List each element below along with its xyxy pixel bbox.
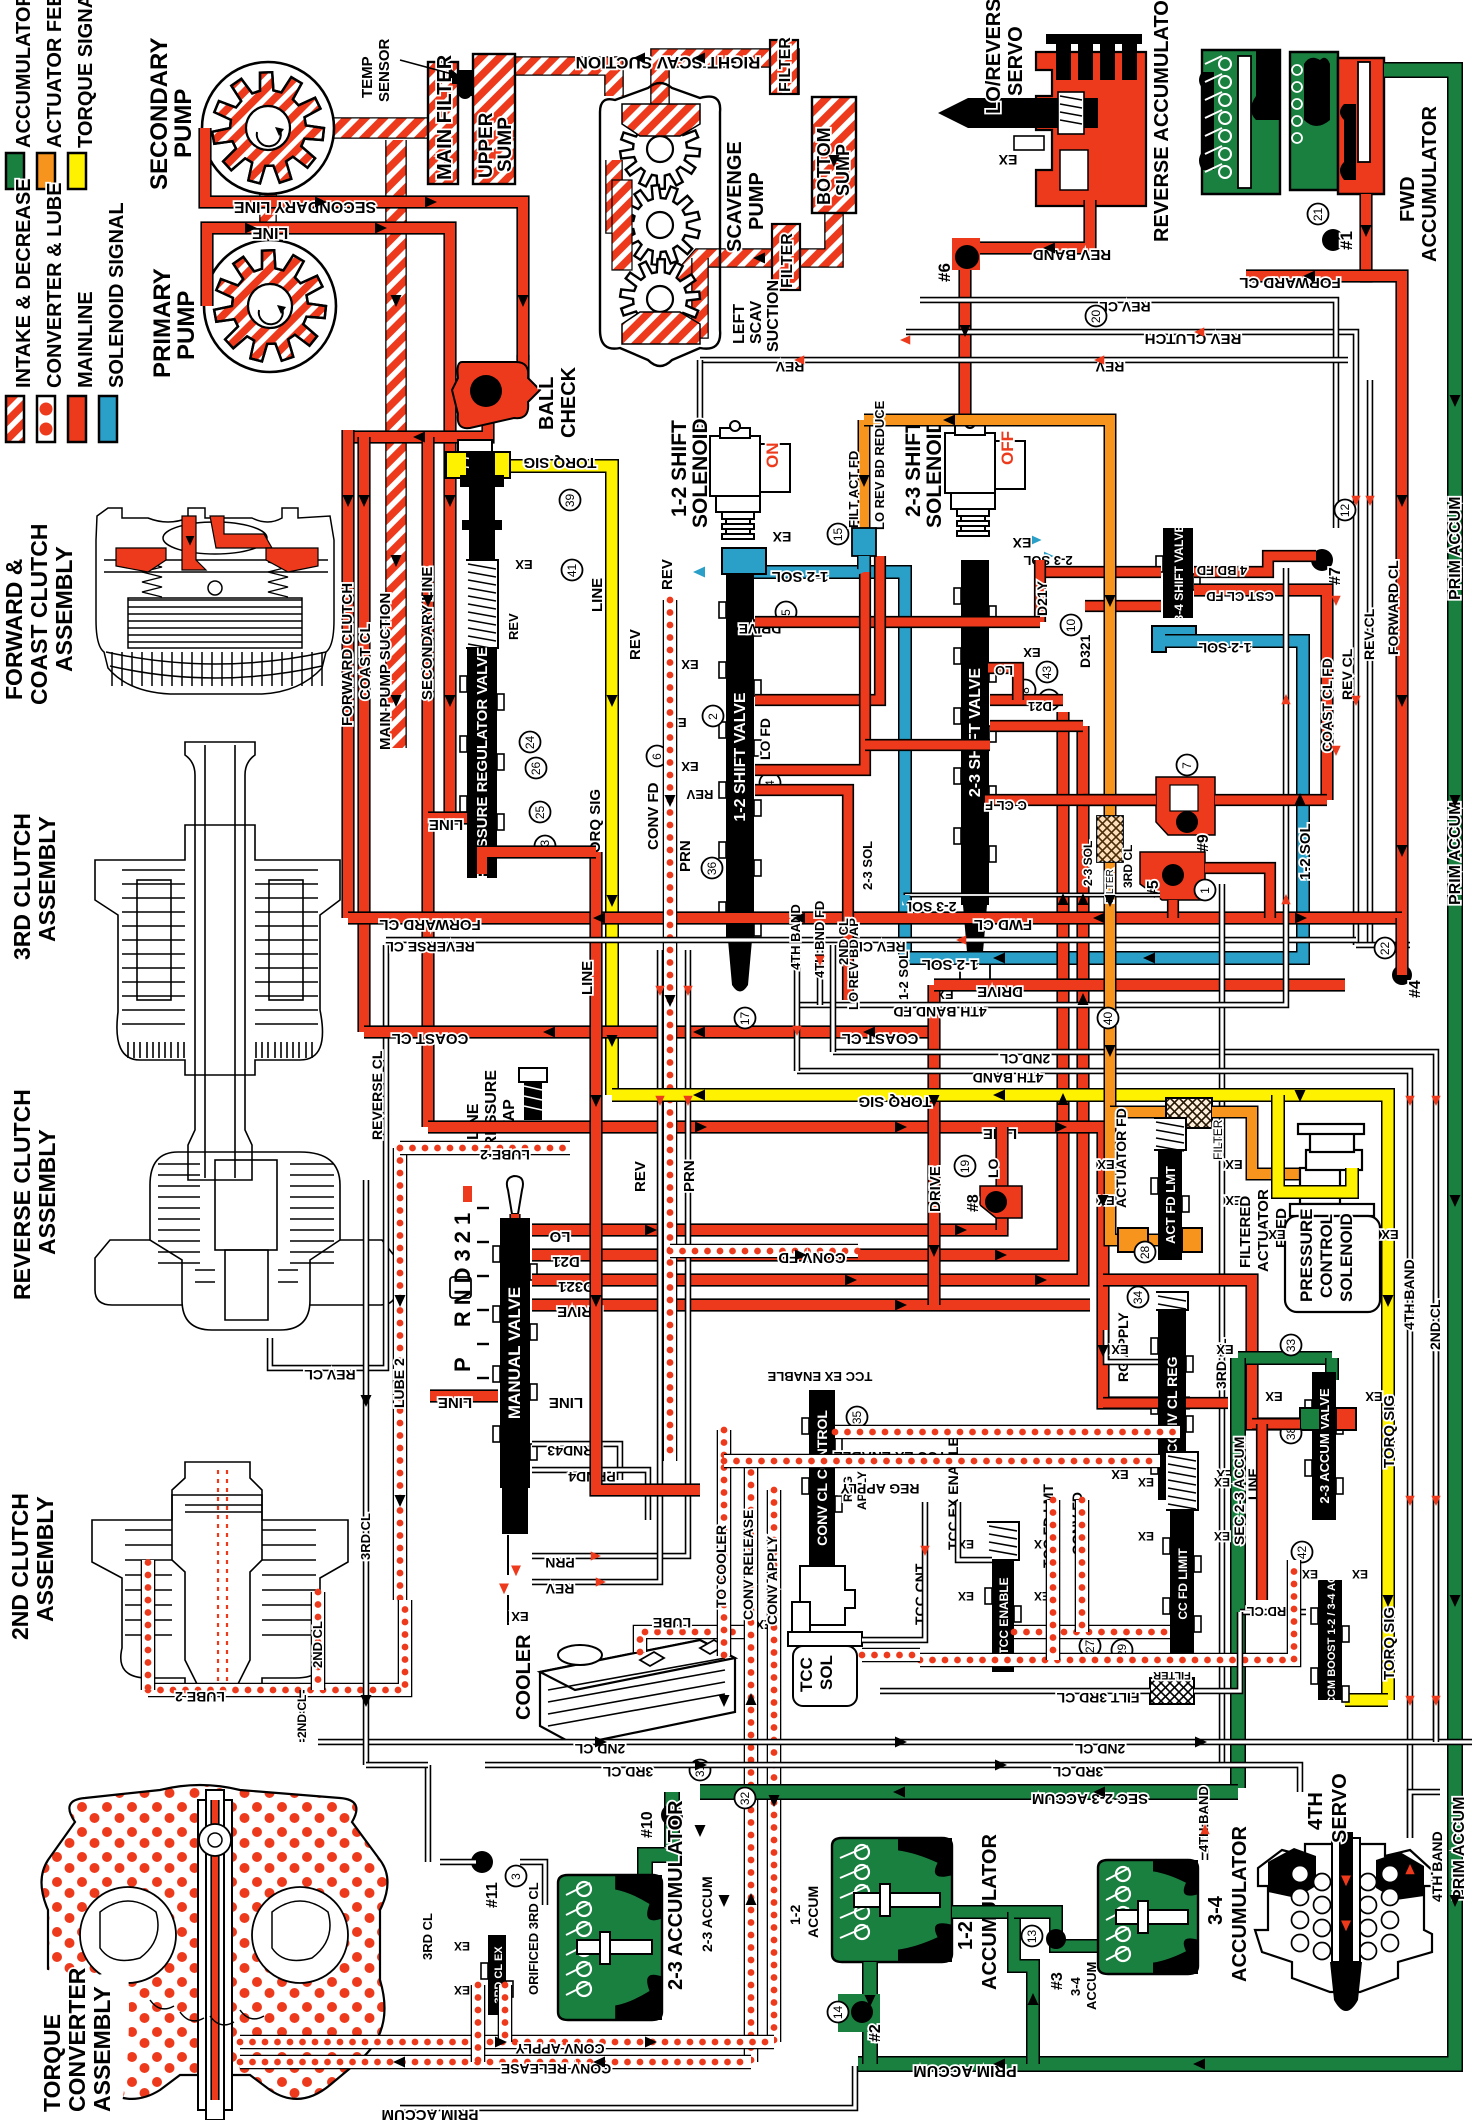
scavenge pump gear — [620, 259, 700, 339]
svg-text:2ND CL: 2ND CL — [295, 1695, 309, 1738]
svg-text:32: 32 — [738, 1792, 752, 1806]
wire orange actfd branch — [1110, 1112, 1158, 1240]
wire 23accum green right — [1325, 1358, 1339, 1380]
wire lube2 h — [400, 1141, 570, 1156]
wire line long mid — [428, 1127, 1190, 1403]
svg-text:LUBE 2: LUBE 2 — [480, 1147, 530, 1163]
wire c cl f — [985, 794, 1156, 806]
svg-text:40: 40 — [1101, 1012, 1115, 1026]
wire thin drops from 12 valve — [794, 945, 801, 1071]
svg-text:CONV RELEASE: CONV RELEASE — [501, 2061, 611, 2077]
wire pr to line stub — [482, 852, 596, 874]
wire 12 sol signal — [744, 556, 905, 958]
pressure control solenoid — [1285, 1124, 1380, 1312]
svg-text:2-3 SOL: 2-3 SOL — [860, 841, 875, 890]
svg-text:14: 14 — [831, 2006, 845, 2020]
svg-text:34: 34 — [1131, 1291, 1145, 1305]
junction #5 — [1140, 852, 1205, 900]
wire thin drops3 — [830, 945, 837, 1052]
svg-text:LO FD: LO FD — [757, 718, 773, 760]
scavenge pump gear — [620, 109, 700, 189]
svg-text:CONV CL CONTROL: CONV CL CONTROL — [814, 1410, 830, 1546]
svg-text:CST CL FD: CST CL FD — [1206, 589, 1274, 604]
4th servo — [1255, 1832, 1432, 2011]
svg-text:LO: LO — [549, 1228, 570, 1245]
svg-text:ACCUMULATOR: ACCUMULATOR — [1419, 106, 1441, 262]
svg-text:4TH: 4TH — [1305, 1792, 1327, 1830]
svg-text:PRESSURE REGULATOR VALVE: PRESSURE REGULATOR VALVE — [474, 647, 491, 879]
wire lo junction — [528, 1223, 541, 1236]
svg-text:FILT ACT FD: FILT ACT FD — [846, 451, 861, 528]
wire prnd4 — [532, 1470, 648, 1520]
wire reverse cl line — [383, 945, 390, 1330]
svg-text:36: 36 — [705, 862, 719, 876]
legend swatch INTAKE & DECREASE — [6, 396, 24, 442]
svg-text:RIGHT SCAV SUCTION: RIGHT SCAV SUCTION — [576, 53, 761, 72]
svg-text:D321: D321 — [558, 1278, 594, 1295]
svg-text:PUMP: PUMP — [173, 291, 200, 360]
svg-text:COAST CL: COAST CL — [842, 1030, 919, 1047]
wire rev thin long — [700, 357, 1348, 364]
wire bottom sump to filter — [672, 210, 834, 290]
svg-text:REV CL: REV CL — [1361, 608, 1377, 660]
tcc solenoid — [788, 1566, 862, 1706]
wire line to 23accumvalve — [1103, 1280, 1300, 1424]
svg-text:REV: REV — [545, 1581, 574, 1597]
wire orificed 3rd cl thin — [440, 1859, 476, 1866]
svg-text:EX: EX — [1352, 1567, 1368, 1581]
svg-text:EX: EX — [681, 657, 699, 672]
svg-text:6: 6 — [650, 753, 664, 760]
svg-text:2-3 SOL: 2-3 SOL — [903, 899, 956, 915]
svg-text:1-2 SOL: 1-2 SOL — [772, 568, 829, 585]
svg-text:REVERSE ACCUMULATOR: REVERSE ACCUMULATOR — [1151, 0, 1173, 242]
svg-text:2ND CL: 2ND CL — [1074, 1741, 1125, 1757]
wire 12sol to 34valve — [905, 641, 1303, 958]
svg-text:PRIM ACCUM: PRIM ACCUM — [1447, 497, 1464, 600]
svg-text:4TH BAND FD: 4TH BAND FD — [893, 1004, 986, 1020]
wire prim accum thin bottom — [400, 2066, 855, 2108]
svg-text:FILT 3RD CL: FILT 3RD CL — [1056, 1690, 1139, 1706]
scavenge pump gear — [620, 185, 699, 265]
svg-text:CONVERTER & LUBE: CONVERTER & LUBE — [44, 182, 66, 388]
wire 12valve right2 — [755, 560, 865, 770]
wire conv fd dotted vert — [663, 600, 678, 1461]
wire 2nd cl right bottom — [1436, 1739, 1472, 1746]
svg-text:1-2 SHIFT: 1-2 SHIFT — [668, 420, 691, 517]
svg-text:3RD CL: 3RD CL — [1246, 1604, 1293, 1619]
wire #9 to right — [1215, 794, 1327, 806]
wire torq sig long — [612, 1095, 1388, 1700]
svg-text:4TH BAND: 4TH BAND — [973, 1070, 1044, 1086]
svg-text:EX: EX — [1138, 1529, 1154, 1543]
wire rev thin drop — [697, 360, 704, 430]
valve ACT FD LMT — [1151, 1118, 1189, 1260]
svg-text:19: 19 — [958, 1160, 972, 1174]
scavenge pump intake fill — [622, 104, 700, 136]
wire line red 23accum — [1252, 1418, 1300, 1430]
svg-text:ACCM BOOST 1-2 / 3-4 ACC: ACCM BOOST 1-2 / 3-4 ACC — [1326, 1567, 1338, 1713]
svg-text:EX: EX — [1023, 645, 1041, 660]
wire green 34 loop2 — [1014, 1912, 1098, 1946]
wire conv fd elbow — [670, 1244, 858, 1259]
wire d21 comb — [990, 694, 1063, 706]
wire conv release bottom — [240, 2055, 751, 2070]
svg-text:43: 43 — [1040, 666, 1054, 680]
wire manual D321 — [532, 726, 1083, 1280]
wire 34valve left1 — [1040, 566, 1161, 578]
svg-text:MANUAL VALVE: MANUAL VALVE — [505, 1287, 524, 1419]
wire drive to 12valve — [755, 616, 1040, 628]
wire yellow accm boost2 — [1324, 1640, 1336, 1700]
upper sump — [473, 54, 515, 184]
svg-text:LINE: LINE — [589, 578, 606, 612]
wire dotted h2 — [724, 1454, 1160, 1469]
svg-text:D21Y: D21Y — [1034, 580, 1050, 616]
wire 2nd cl dotted vert — [311, 1592, 326, 1690]
wire forward clutch feed — [341, 430, 354, 918]
svg-text:3RD CL: 3RD CL — [602, 1764, 653, 1780]
lo/reverse servo — [938, 34, 1146, 206]
arrows — [245, 53, 1461, 2070]
svg-text:SECONDARY LINE: SECONDARY LINE — [234, 198, 377, 215]
valve 1-2 SHIFT VALVE — [719, 574, 761, 940]
wire filt 3rd cl thin — [880, 1688, 1150, 1695]
wire secondary line — [205, 128, 523, 360]
svg-text:ACCUMULATOR: ACCUMULATOR — [13, 0, 35, 148]
svg-text:35: 35 — [850, 1411, 864, 1425]
svg-text:SOLENOID: SOLENOID — [689, 418, 712, 528]
svg-text:REVERSE CL: REVERSE CL — [385, 939, 475, 955]
svg-text:4TH BND FD: 4TH BND FD — [812, 901, 827, 978]
legend swatch MAINLINE — [68, 396, 86, 442]
svg-text:EX: EX — [1214, 1529, 1230, 1543]
svg-text:4TH BAND: 4TH BAND — [1196, 1786, 1211, 1852]
wire rev from manual — [532, 1140, 660, 1582]
wire 4th band to accum — [1202, 1794, 1209, 1860]
svg-text:LO: LO — [985, 1158, 1001, 1178]
wire 3rd cl mid vert — [1219, 884, 1226, 1765]
svg-text:39: 39 — [563, 494, 577, 508]
svg-text:2-3 ACCUMULATOR: 2-3 ACCUMULATOR — [665, 1800, 687, 1990]
svg-text:CONV RELEASE: CONV RELEASE — [740, 1510, 756, 1620]
svg-text:TCC: TCC — [797, 1657, 816, 1692]
junction #9 — [1156, 777, 1215, 835]
wire 12valve lofd — [755, 790, 848, 1000]
wire 23accum green vert — [1230, 1358, 1246, 1788]
svg-text:EX: EX — [1265, 1389, 1283, 1404]
svg-text:LINE: LINE — [579, 961, 596, 995]
svg-text:ACCUM: ACCUM — [1084, 1962, 1099, 2010]
svg-text:TCC ENABLE: TCC ENABLE — [997, 1577, 1011, 1654]
svg-text:REV CL: REV CL — [304, 1367, 356, 1383]
svg-text:EX: EX — [998, 152, 1017, 168]
svg-text:REV: REV — [659, 559, 676, 590]
svg-text:EX: EX — [1012, 535, 1031, 551]
wire 4th band thin — [797, 1071, 1410, 1838]
svg-text:REV CLUTCH: REV CLUTCH — [1145, 330, 1242, 347]
wire tcc cnt thin — [862, 1502, 925, 1640]
svg-text:ASSEMBLY: ASSEMBLY — [89, 1986, 115, 2112]
svg-text:EX: EX — [1111, 1342, 1129, 1357]
svg-text:FORWARD CL: FORWARD CL — [1239, 274, 1340, 291]
wire d21y — [1034, 560, 1046, 622]
svg-text:SENSOR: SENSOR — [376, 38, 393, 102]
svg-text:DRIVE: DRIVE — [927, 1166, 944, 1212]
wire right scav suction — [660, 58, 790, 128]
svg-text:ASSEMBLY: ASSEMBLY — [34, 1129, 60, 1255]
wire line down to manual valve region — [421, 690, 434, 1127]
svg-text:#1: #1 — [1337, 231, 1356, 250]
svg-text:REV: REV — [506, 613, 521, 640]
svg-text:LO: LO — [995, 663, 1013, 678]
svg-text:BALL: BALL — [536, 377, 558, 430]
wire conv fd to cooler col — [717, 1430, 732, 1656]
svg-text:SOLENOID SIGNAL: SOLENOID SIGNAL — [106, 202, 128, 388]
svg-text:FORWARD CL: FORWARD CL — [1385, 560, 1401, 655]
svg-text:41: 41 — [565, 564, 579, 578]
wire manual valve stem — [509, 1214, 520, 1238]
svg-text:3RD CL: 3RD CL — [1052, 1764, 1103, 1780]
svg-text:SEC 2-3 ACCUM: SEC 2-3 ACCUM — [1032, 1790, 1148, 1807]
wire orificed path — [520, 1862, 545, 1905]
svg-text:SOLENOID: SOLENOID — [1337, 1213, 1356, 1302]
forward & coast clutch assembly — [96, 508, 334, 694]
svg-text:CONV FD: CONV FD — [778, 1249, 846, 1266]
ball check — [452, 362, 540, 428]
svg-text:CONV APPLY: CONV APPLY — [515, 2041, 605, 2057]
wire to #9 red — [1083, 794, 1156, 806]
wire filt 3rd out — [1194, 1612, 1240, 1691]
wire line red 23accum vert — [1256, 1424, 1268, 1600]
svg-text:1: 1 — [1198, 887, 1212, 894]
wire reverse cl thin long — [386, 937, 1356, 944]
wire dotted h3 — [1014, 1625, 1170, 1640]
legend swatch SOLENOID SIGNAL — [99, 396, 117, 442]
wire 4th band right vert — [1410, 1792, 1440, 1838]
svg-text:EX: EX — [1097, 1157, 1115, 1172]
svg-text:CONVERTER: CONVERTER — [64, 1967, 90, 2112]
2-3 shift solenoid — [945, 418, 1025, 536]
svg-text:SECONDARY: SECONDARY — [146, 38, 173, 190]
scavenge pump housing — [600, 83, 720, 366]
wire 2nd cl drop — [300, 1690, 305, 1742]
filter (left scav) — [772, 224, 800, 290]
svg-text:LEFT: LEFT — [731, 304, 748, 344]
svg-text:#11: #11 — [484, 1882, 501, 1908]
wire fwd right elbow — [1395, 918, 1408, 975]
wire coast cl long — [364, 1025, 930, 1038]
wire dotted convfd vert — [1075, 1500, 1090, 1632]
svg-text:REVERSE CL: REVERSE CL — [369, 1050, 385, 1140]
wire coast cl fd red — [1194, 590, 1327, 800]
svg-text:25: 25 — [533, 806, 547, 820]
wire torq sig tap — [500, 466, 612, 1095]
wire 12accum right — [952, 1905, 1014, 1919]
svg-text:REVERSE CLUTCH: REVERSE CLUTCH — [9, 1089, 35, 1300]
svg-text:#3: #3 — [1049, 1972, 1066, 1990]
valve PRESSURE REGULATOR VALVE — [460, 560, 504, 879]
wire scavenge crossover — [614, 160, 660, 225]
junction #8 — [980, 1186, 1022, 1218]
svg-text:2-3 SHIFT: 2-3 SHIFT — [902, 420, 925, 517]
svg-text:2-3 SOL: 2-3 SOL — [1081, 841, 1095, 886]
svg-text:CONV APPLY: CONV APPLY — [764, 1535, 780, 1625]
temp sensor — [452, 70, 478, 99]
1-2 shift solenoid — [710, 421, 790, 539]
wire orange main — [864, 420, 1110, 1112]
svg-text:17: 17 — [738, 1012, 752, 1026]
svg-text:SCAV: SCAV — [748, 300, 765, 344]
wire converter core red — [210, 1800, 219, 2100]
svg-text:EX: EX — [511, 1609, 529, 1624]
svg-text:4TH BAND: 4TH BAND — [1401, 1259, 1417, 1330]
manual valve detent lever — [507, 1176, 523, 1214]
svg-text:27: 27 — [1083, 1640, 1097, 1654]
wire rev band — [965, 200, 1090, 433]
svg-text:COAST CL FD: COAST CL FD — [1319, 658, 1335, 752]
svg-text:2-3 ACCUM: 2-3 ACCUM — [699, 1876, 715, 1952]
svg-text:COOLER: COOLER — [513, 1634, 535, 1720]
svg-text:PRIM ACCUM: PRIM ACCUM — [382, 2106, 479, 2120]
svg-text:FWD CL: FWD CL — [974, 916, 1032, 933]
svg-text:15: 15 — [831, 528, 845, 542]
wire sec 2-3 accum — [700, 1784, 1238, 1800]
svg-text:4TH BAND: 4TH BAND — [1429, 1831, 1445, 1902]
wire 3rd cl left vert2 — [363, 1180, 370, 1765]
svg-text:FILTER: FILTER — [1211, 1119, 1225, 1160]
valve 3-4 SHIFT VALVE — [1156, 525, 1200, 622]
svg-text:FORWARD CL: FORWARD CL — [379, 916, 480, 933]
svg-text:3RD CLUTCH: 3RD CLUTCH — [9, 813, 35, 960]
2-3 accumulator — [558, 1875, 662, 2020]
svg-text:#9: #9 — [1195, 834, 1212, 852]
valve CC FD LIMIT — [1163, 1452, 1201, 1658]
wire dotted near tcc sol — [862, 1648, 920, 1663]
svg-text:COAST CL: COAST CL — [392, 1030, 469, 1047]
svg-text:LINE: LINE — [549, 1394, 583, 1411]
2nd clutch assembly — [92, 1462, 348, 1695]
svg-text:3-4: 3-4 — [1068, 1976, 1083, 1996]
wire rev cl from assembly — [270, 1330, 386, 1368]
svg-text:PRIM ACCUM: PRIM ACCUM — [1451, 1797, 1468, 1900]
svg-text:2ND CL: 2ND CL — [310, 1621, 325, 1668]
svg-text:EX: EX — [515, 557, 533, 572]
valve CONV CL REG — [1151, 1292, 1193, 1500]
wire 12accum to prim — [862, 1962, 878, 2064]
svg-text:1-2 SOL: 1-2 SOL — [896, 951, 911, 1000]
svg-text:ASSEMBLY: ASSEMBLY — [32, 1496, 58, 1622]
svg-text:22: 22 — [1378, 942, 1392, 956]
svg-text:10: 10 — [1064, 619, 1078, 633]
valve TCC ENABLE — [985, 1522, 1021, 1672]
wire 34valve left2 — [1085, 600, 1161, 612]
svg-text:EX: EX — [1111, 1467, 1129, 1482]
fwd accumulator — [1290, 52, 1384, 194]
svg-text:PRN: PRN — [677, 840, 694, 872]
svg-text:#2: #2 — [867, 2024, 884, 2042]
wire 2nd cl right vert — [1433, 1290, 1440, 1742]
wire rev clutch thin — [906, 332, 1356, 945]
wire 2nd cl assembly lube — [141, 1560, 156, 1600]
svg-text:3-4 SHIFT VALVE: 3-4 SHIFT VALVE — [1172, 525, 1186, 622]
svg-text:EX: EX — [1216, 1342, 1234, 1357]
svg-text:LINE: LINE — [251, 224, 288, 241]
wire 3rd cl left vert — [425, 1765, 432, 1862]
svg-text:3RD CL: 3RD CL — [420, 1913, 435, 1960]
svg-text:SOLENOID: SOLENOID — [923, 418, 946, 528]
wire dotted h4 — [920, 1560, 1294, 1660]
svg-text:TORQ SIG: TORQ SIG — [523, 454, 596, 471]
line pressure tap — [519, 1068, 547, 1120]
wire conv cl reg red — [1103, 1397, 1158, 1409]
svg-text:#10: #10 — [639, 1811, 656, 1838]
svg-text:CONV FD: CONV FD — [645, 782, 662, 850]
svg-text:D21: D21 — [552, 1253, 580, 1270]
svg-text:REV: REV — [632, 1161, 649, 1192]
svg-text:2: 2 — [706, 713, 720, 720]
wire secondary line down — [421, 437, 434, 700]
wire lube2 col — [393, 1148, 408, 1600]
wire yellow accm boost — [1345, 1693, 1388, 1707]
svg-text:SUMP: SUMP — [495, 117, 516, 172]
wire green 34 loop — [1014, 1912, 1033, 2064]
wire rev cl thin right — [1356, 942, 1410, 949]
valve ACCM BOOST 1-2 / 3-4 ACC — [1311, 1567, 1349, 1713]
svg-text:COAST CLUTCH: COAST CLUTCH — [26, 524, 52, 705]
wire actuator fd orange — [1110, 1106, 1169, 1119]
svg-text:3: 3 — [509, 1873, 523, 1880]
svg-text:ORIFICED 3RD CL: ORIFICED 3RD CL — [526, 1882, 541, 1995]
svg-text:EX: EX — [454, 1983, 470, 1997]
wire prn from manual — [532, 1200, 688, 1556]
wire 23accum green top — [1238, 1351, 1332, 1365]
svg-text:EX: EX — [1225, 1157, 1243, 1172]
svg-text:TORQUE SIGNAL: TORQUE SIGNAL — [75, 0, 97, 148]
svg-text:SCAVENGE: SCAVENGE — [724, 141, 746, 252]
svg-text:SECONDARY LINE: SECONDARY LINE — [419, 567, 436, 700]
svg-text:PRESSURE: PRESSURE — [1297, 1208, 1316, 1302]
wire d321 comb — [990, 720, 1083, 732]
svg-text:SUMP: SUMP — [833, 144, 853, 196]
svg-text:LUBE 2: LUBE 2 — [175, 1689, 225, 1705]
svg-text:SEC 2-3 ACCUM: SEC 2-3 ACCUM — [1231, 1437, 1247, 1545]
wire 2nd cl thin — [833, 1052, 1436, 1742]
svg-text:ACCUMULATOR: ACCUMULATOR — [1229, 1826, 1251, 1982]
svg-text:2ND CL: 2ND CL — [999, 1051, 1050, 1067]
wire main pump suction vertical — [385, 140, 407, 748]
svg-text:LO REV BD REDUCE: LO REV BD REDUCE — [872, 400, 887, 530]
svg-text:EX: EX — [1268, 1227, 1286, 1242]
svg-text:ACCUM: ACCUM — [805, 1886, 821, 1938]
wire 3rd cl elbow bottom — [366, 1762, 428, 1769]
svg-text:20: 20 — [1089, 310, 1103, 324]
svg-text:PRN: PRN — [545, 1555, 575, 1571]
svg-text:MAINLINE: MAINLINE — [75, 291, 97, 388]
svg-text:13: 13 — [1025, 1930, 1039, 1944]
wire reg apply thin — [1106, 1330, 1158, 1362]
svg-text:3RD CL: 3RD CL — [1121, 845, 1135, 888]
wire manual LO — [532, 1186, 1002, 1230]
svg-text:2-3 SOL: 2-3 SOL — [1023, 553, 1072, 568]
wire upper sump to scavenge link — [500, 66, 614, 96]
wire inter-pump suction — [259, 160, 277, 280]
svg-text:INTAKE & DECREASE: INTAKE & DECREASE — [13, 178, 35, 388]
wire 3rd cl thin bottom — [485, 1762, 1238, 1769]
wire lo comb — [988, 668, 1018, 700]
svg-text:2ND CLUTCH: 2ND CLUTCH — [7, 1493, 33, 1640]
wire orange post filter — [1212, 1112, 1302, 1174]
